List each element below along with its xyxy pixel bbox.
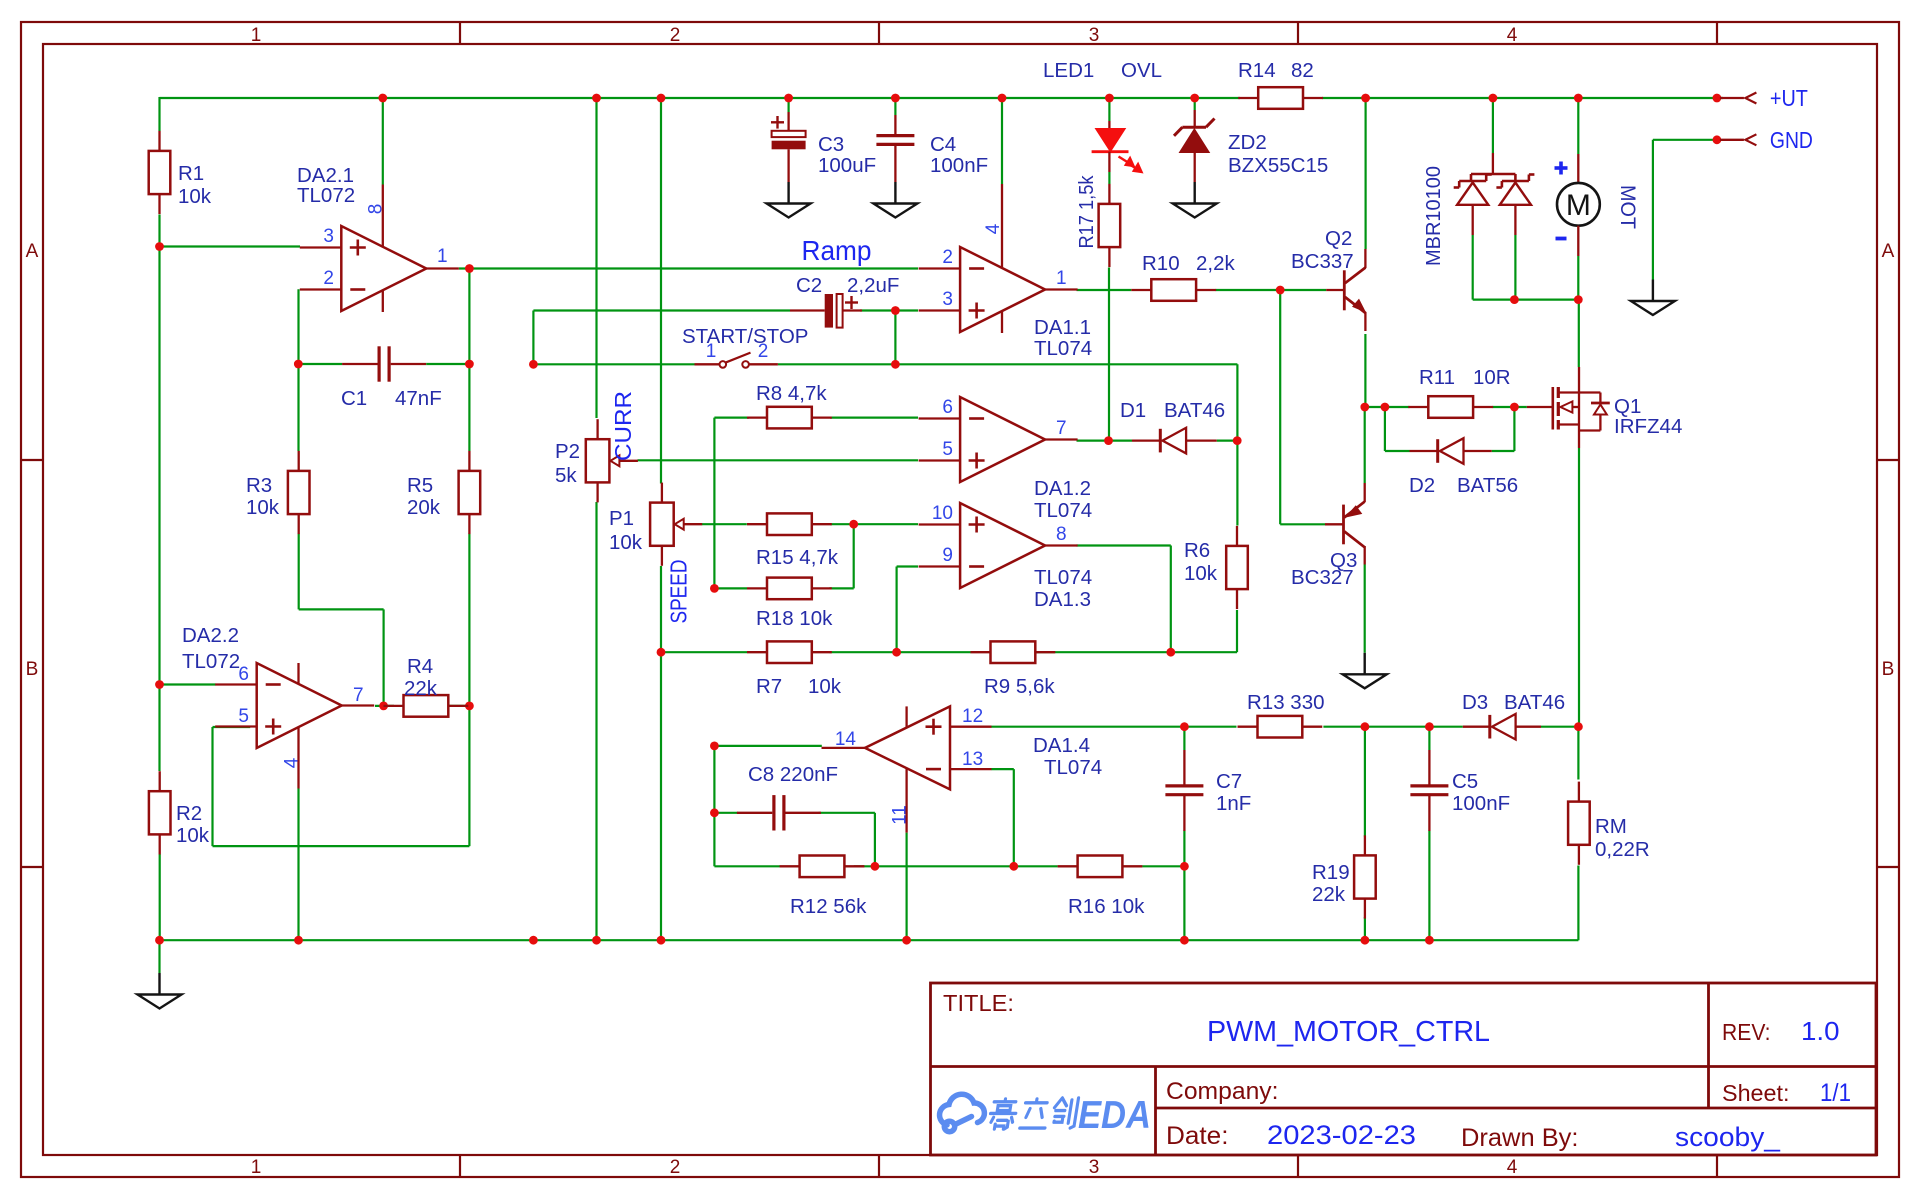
diode D2	[1410, 450, 1438, 452]
svg-text:R5: R5	[407, 474, 433, 497]
svg-text:SPEED: SPEED	[666, 560, 692, 624]
wire Q2 emitter to R11 node	[1364, 334, 1366, 407]
wire GND bus	[160, 939, 1430, 941]
wire DA2.1 pin2 drop to C1 left node	[297, 289, 299, 364]
svg-text:2,2k: 2,2k	[1196, 252, 1235, 275]
ground for main GND bus	[158, 973, 160, 995]
ground for ZD2	[1193, 182, 1195, 204]
junction dot C8/R12 right	[871, 862, 880, 871]
svg-text:DA1.4: DA1.4	[1033, 734, 1090, 757]
dual schottky MBR10100	[1492, 153, 1494, 174]
svg-text:4: 4	[282, 757, 303, 768]
svg-text:100uF: 100uF	[818, 154, 876, 177]
resistor R11	[1428, 396, 1473, 418]
wire R8 to DA1.2 pin6	[830, 417, 918, 419]
svg-text:BC337: BC337	[1291, 250, 1354, 273]
svg-text:C1: C1	[341, 387, 367, 410]
svg-text:10k: 10k	[246, 496, 280, 519]
svg-text:3: 3	[1089, 1157, 1100, 1178]
svg-text:ZD2: ZD2	[1228, 131, 1267, 154]
svg-text:R11: R11	[1419, 366, 1455, 389]
junction dot switch to pin3 column	[891, 360, 900, 369]
wire DA2.2 pin6 node to R2 top	[158, 685, 160, 772]
title block	[931, 983, 1877, 1155]
wire Q3 emitter up to R11 node	[1364, 407, 1366, 483]
wire R11 right to Q1 gate node	[1493, 406, 1527, 408]
wire motor node down to Q1 drain	[1578, 300, 1580, 367]
junction dot C5 node	[1425, 722, 1434, 731]
svg-text:MBR10100: MBR10100	[1422, 166, 1445, 266]
wire DA1.4 pin11 to GND bus	[905, 833, 907, 941]
svg-text:1: 1	[1056, 268, 1067, 289]
resistor RM	[1568, 802, 1590, 845]
resistor R18	[767, 578, 812, 600]
wire R7 to R9 segment	[829, 651, 896, 653]
svg-text:2: 2	[323, 268, 334, 289]
svg-text:DA1.2: DA1.2	[1034, 477, 1091, 500]
jlc eda logo cloud	[940, 1094, 985, 1131]
wire RM node drop	[1577, 727, 1579, 780]
capacitor C5	[1428, 750, 1430, 786]
junction dot motor bottom node	[1574, 295, 1583, 304]
svg-text:5k: 5k	[555, 464, 577, 487]
svg-text:C5: C5	[1452, 770, 1478, 793]
port GND	[1713, 135, 1722, 144]
wire P1 column from bus	[660, 98, 662, 484]
junction dot R7 row at P1 column	[657, 648, 666, 657]
svg-text:D2: D2	[1409, 474, 1435, 497]
svg-text:A: A	[26, 241, 39, 262]
resistor R14	[1258, 87, 1303, 109]
svg-text:TL074: TL074	[1034, 566, 1092, 589]
junction dot D1 right node	[1233, 436, 1242, 445]
svg-text:Sheet:: Sheet:	[1722, 1080, 1790, 1106]
wire RM bottom corner to GND bus	[1577, 866, 1579, 941]
svg-text:13: 13	[962, 749, 983, 770]
svg-text:10k: 10k	[1184, 562, 1218, 585]
svg-text:TL074: TL074	[1034, 337, 1092, 360]
svg-text:D3: D3	[1462, 691, 1488, 714]
resistor R6	[1226, 546, 1248, 589]
transistor Q3	[1325, 523, 1343, 525]
svg-text:1nF: 1nF	[1216, 792, 1251, 815]
capacitor C8	[772, 795, 775, 830]
svg-text:Q2: Q2	[1325, 227, 1352, 250]
resistor R7	[767, 641, 812, 663]
wire C2 right to DA1.1 pin3 node	[860, 309, 918, 311]
svg-text:R2: R2	[176, 802, 202, 825]
svg-text:4: 4	[1507, 25, 1518, 46]
wire C2 row left segment	[533, 309, 790, 311]
svg-text:R19: R19	[1312, 861, 1350, 884]
junction dot D2 left branch	[1381, 403, 1390, 412]
wire DA2.1 pin8 power drop	[382, 98, 384, 185]
ground for Q3	[1363, 653, 1365, 675]
junction dot out8 at R9 row	[1166, 648, 1175, 657]
junction dot R10 to Q2/Q3 base	[1276, 286, 1285, 295]
wire ramp node corner down to D1 right node	[1236, 364, 1238, 440]
wire ZD2 top lead from bus	[1194, 98, 1196, 110]
svg-text:10k: 10k	[176, 824, 210, 847]
wire D1 cathode to ramp node	[1217, 440, 1238, 442]
resistor R8	[767, 407, 812, 429]
op-amp DA1.1	[960, 247, 1045, 332]
svg-text:1.0: 1.0	[1801, 1016, 1840, 1046]
wire motor top lead from bus	[1577, 98, 1579, 154]
wire R7 row left from P1 column	[661, 651, 747, 653]
capacitor C7	[1183, 750, 1185, 786]
wire DA1.2 out to D1 node	[1077, 440, 1109, 442]
zener diode ZD2	[1194, 110, 1196, 127]
svg-text:3: 3	[942, 289, 953, 310]
wire DA2.2 pin6 input	[160, 683, 216, 685]
svg-text:2: 2	[758, 341, 769, 362]
svg-text:Drawn By:: Drawn By:	[1461, 1124, 1579, 1152]
svg-text:C8 220nF: C8 220nF	[748, 763, 838, 786]
svg-text:3: 3	[323, 226, 334, 247]
svg-text:10R: 10R	[1473, 366, 1511, 389]
wire D2 left branch drop	[1384, 407, 1386, 451]
junction dots GND bus	[155, 936, 164, 945]
junction dot DA2.2 pin6 node	[155, 680, 164, 689]
svg-text:1: 1	[706, 341, 717, 362]
wire R17 bottom down to D1 node	[1108, 268, 1110, 441]
ground for GND port	[1652, 280, 1654, 302]
motor MOT	[1577, 154, 1579, 183]
wire LED1 to R17	[1108, 172, 1110, 184]
svg-text:C4: C4	[930, 133, 956, 156]
wire C1 right node down to R5	[468, 364, 470, 451]
svg-text:C3: C3	[818, 133, 844, 156]
wire MBR10100 top lead from bus	[1492, 98, 1494, 153]
svg-text:R3: R3	[246, 474, 272, 497]
svg-text:2,2uF: 2,2uF	[847, 274, 899, 297]
svg-text:scooby_: scooby_	[1675, 1122, 1781, 1152]
junction dot pin12/C7 node	[1180, 722, 1189, 731]
resistor R5	[459, 471, 481, 514]
junction dot C2 right / DA1.1 pin3	[891, 306, 900, 315]
svg-text:10k: 10k	[808, 675, 842, 698]
wire R18 right corner up to pin10 node	[829, 587, 853, 589]
junction dots +UT bus	[378, 94, 387, 103]
junction dot R16/C7 node	[1180, 862, 1189, 871]
svg-text:7: 7	[1056, 418, 1067, 439]
diode D3	[1463, 726, 1490, 728]
wire DA1.4 pin13 loop	[991, 768, 1014, 770]
wire pin13 node to R16	[1014, 865, 1058, 867]
svg-text:2: 2	[942, 247, 953, 268]
wire DA2.2 pin4 to GND bus	[297, 789, 299, 941]
wire C5 node to D3	[1429, 726, 1462, 728]
wire P2 column from bus	[595, 98, 597, 418]
svg-text:8: 8	[365, 204, 386, 215]
svg-text:20k: 20k	[407, 496, 441, 519]
wire C1 right node lead	[426, 363, 469, 365]
svg-text:BAT46: BAT46	[1504, 691, 1565, 714]
junction dot R15/R18 to pin10	[849, 520, 858, 529]
wire R11 node to D2 branch node	[1365, 406, 1385, 408]
resistor R3	[288, 471, 310, 514]
junction dot D3/RM node	[1574, 722, 1583, 731]
wire DA1.1 pin4 power drop	[1001, 98, 1003, 184]
capacitor C3	[787, 112, 789, 131]
svg-text:TITLE:: TITLE:	[943, 990, 1014, 1016]
svg-text:R12 56k: R12 56k	[790, 895, 867, 918]
mosfet Q1	[1527, 406, 1552, 408]
resistor R19	[1354, 855, 1376, 898]
svg-text:R10: R10	[1142, 252, 1180, 275]
junction dot Q2 emitter R11 node	[1360, 403, 1369, 412]
potentiometer P2	[586, 439, 610, 482]
wire DA1.1 pin3 node drop to switch row	[894, 311, 896, 365]
svg-text:100nF: 100nF	[930, 154, 988, 177]
svg-text:R15 4,7k: R15 4,7k	[756, 546, 839, 569]
wire R5 bottom to R4 right node	[468, 534, 470, 706]
wire R1 bottom to pin3 node	[158, 215, 160, 247]
wire DA1.3 pin9 loop down to R9 row	[897, 565, 918, 567]
wire R3 bottom to DA2.2 output node	[298, 534, 300, 610]
wire Q2 collector from bus	[1364, 98, 1366, 249]
svg-text:R9 5,6k: R9 5,6k	[984, 675, 1055, 698]
svg-text:DA1.3: DA1.3	[1034, 588, 1091, 611]
wire R13 to R19 node	[1323, 726, 1365, 728]
wire Q2/Q3 base column	[1279, 290, 1281, 524]
svg-text:BAT56: BAT56	[1457, 474, 1518, 497]
svg-text:10k: 10k	[178, 185, 212, 208]
svg-text:100nF: 100nF	[1452, 792, 1510, 815]
svg-text:IRFZ44: IRFZ44	[1614, 415, 1682, 438]
svg-text:RM: RM	[1595, 815, 1627, 838]
op-amp DA2.2	[257, 663, 342, 748]
resistor R17	[1099, 204, 1121, 247]
resistor R15	[767, 513, 812, 535]
junction dot DA2.1 output	[465, 264, 474, 273]
junction dot R8 feedback corner	[710, 584, 719, 593]
svg-text:Ramp: Ramp	[802, 235, 872, 266]
wire R19 bottom to GND bus	[1364, 917, 1366, 940]
op-amp DA1.2	[960, 397, 1045, 482]
op-amp DA1.4	[865, 706, 950, 789]
wire C7 bottom lead	[1183, 831, 1185, 867]
svg-text:R1: R1	[178, 162, 204, 185]
wire R4 right node	[448, 705, 470, 707]
wire R9 leads	[897, 651, 971, 653]
capacitor C2	[825, 294, 833, 328]
wire +UT bus	[160, 97, 1241, 99]
wire C8 left lead	[714, 812, 737, 814]
resistor R2	[149, 791, 171, 834]
svg-text:C7: C7	[1216, 770, 1242, 793]
potentiometer P1	[650, 503, 674, 546]
diode D1	[1132, 439, 1160, 441]
junction dot pin13 node	[1009, 862, 1018, 871]
svg-text:7: 7	[353, 685, 364, 706]
op-amp DA1.3	[960, 503, 1045, 588]
svg-text:P1: P1	[609, 507, 634, 530]
junction dot D1 left node	[1104, 436, 1113, 445]
svg-text:A: A	[1882, 241, 1895, 262]
wire P2 wiper to DA1.2 pin5	[638, 459, 919, 461]
junction dot MBR bottom row	[1510, 295, 1519, 304]
wire R6 bottom corner to R9 row	[1236, 610, 1238, 652]
LED LED1	[1108, 121, 1110, 129]
svg-text:BZX55C15: BZX55C15	[1228, 154, 1328, 177]
junction dot R4 right	[465, 702, 474, 711]
wire C1 left node leads	[298, 363, 342, 365]
svg-text:14: 14	[835, 729, 857, 750]
svg-text:REV:: REV:	[1722, 1019, 1771, 1045]
wire R16 to C7 node	[1142, 865, 1184, 867]
svg-text:22k: 22k	[1312, 883, 1346, 906]
wire feedback column C8 node to R12 row	[713, 813, 715, 867]
svg-text:Company:: Company:	[1166, 1078, 1279, 1105]
svg-text:R7: R7	[756, 675, 782, 698]
wire P2 bottom to GND bus	[595, 502, 597, 940]
svg-text:C2: C2	[796, 274, 822, 297]
junction dot DA2.2 output	[379, 702, 388, 711]
resistor R4	[404, 695, 449, 717]
wire R11 left lead	[1385, 406, 1410, 408]
wire C1 left node down to R3	[297, 364, 299, 451]
svg-text:TL072: TL072	[297, 184, 355, 207]
svg-text:P2: P2	[555, 440, 580, 463]
svg-text:4: 4	[983, 223, 1004, 234]
capacitor C4	[894, 115, 896, 136]
svg-text:LED1: LED1	[1043, 59, 1094, 82]
svg-text:5: 5	[942, 439, 953, 460]
wire DA1.4 pin12 row	[991, 726, 1236, 728]
wire C5 drop	[1428, 727, 1430, 750]
wire D3 cathode to RM node	[1541, 726, 1578, 728]
svg-text:Date:: Date:	[1166, 1122, 1229, 1150]
svg-text:R8 4,7k: R8 4,7k	[756, 382, 827, 405]
wire motor bottom row	[1514, 299, 1578, 301]
svg-text:TL074: TL074	[1044, 756, 1102, 779]
wire DA2.1 pin3 input	[160, 245, 301, 247]
wire C3 top lead from bus	[787, 98, 789, 112]
svg-text:8: 8	[1056, 524, 1067, 545]
op-amp DA2.1	[341, 226, 426, 311]
svg-text:EDA: EDA	[1078, 1094, 1151, 1137]
wire MBR left diode bottom	[1472, 235, 1474, 300]
resistor R13	[1258, 716, 1303, 738]
svg-text:3: 3	[1089, 25, 1100, 46]
wire DA2.2 pin5 feedback loop	[213, 726, 251, 728]
svg-text:10: 10	[932, 503, 953, 524]
resistor R10	[1151, 279, 1196, 301]
transistor Q2	[1326, 289, 1343, 291]
wire ramp node down to R6	[1236, 441, 1238, 526]
wire R2 bottom to GND bus	[159, 854, 161, 940]
svg-text:DA1.1: DA1.1	[1034, 316, 1091, 339]
wire C7 node down to GND bus	[1183, 866, 1185, 940]
junction dot C8 left	[710, 808, 719, 817]
wire Q1 source down to D3 node	[1578, 448, 1580, 727]
svg-text:R6: R6	[1184, 539, 1210, 562]
svg-text:START/STOP: START/STOP	[682, 325, 808, 348]
start/stop switch	[695, 363, 720, 365]
wire LED1 top lead from bus	[1108, 98, 1110, 121]
wire R18 left from feedback column	[714, 587, 747, 589]
svg-text:DA2.2: DA2.2	[182, 624, 239, 647]
svg-text:TL074: TL074	[1034, 499, 1092, 522]
wire P1 bottom to GND bus via R7 node	[660, 566, 662, 940]
wire DA2.2 output node to R4	[375, 705, 394, 707]
svg-text:M: M	[1566, 189, 1591, 222]
jlc eda logo text	[988, 1098, 1078, 1129]
wire C8 right corner down to R12 node	[819, 812, 875, 814]
wire P1 wiper to R15	[702, 523, 747, 525]
svg-text:2: 2	[670, 25, 681, 46]
svg-text:4: 4	[1507, 1157, 1518, 1178]
svg-text:2023-02-23: 2023-02-23	[1267, 1120, 1416, 1150]
wire START/STOP row left	[533, 363, 694, 365]
wire R15 to DA1.3 pin10 node	[830, 523, 918, 525]
svg-text:R13 330: R13 330	[1247, 691, 1325, 714]
svg-text:9: 9	[942, 545, 953, 566]
resistor R9	[991, 641, 1036, 663]
svg-text:MOT: MOT	[1616, 185, 1639, 229]
resistor R1	[149, 151, 171, 194]
svg-text:47nF: 47nF	[395, 387, 442, 410]
wire R19 node to C5 node	[1365, 726, 1430, 728]
svg-text:R17 1,5k: R17 1,5k	[1075, 175, 1098, 249]
wire GND bus to ground symbol stem	[158, 940, 160, 973]
ground for C4	[894, 182, 896, 204]
svg-text:BC327: BC327	[1291, 566, 1354, 589]
junction dot DA2.1 pin3 node	[155, 242, 164, 251]
svg-text:CURR: CURR	[610, 391, 636, 461]
svg-text:PWM_MOTOR_CTRL: PWM_MOTOR_CTRL	[1207, 1016, 1490, 1048]
wire +UT left drop to R1/R2 column	[158, 97, 160, 131]
svg-text:1: 1	[251, 25, 262, 46]
wire R12 right to pin13 node	[854, 865, 1014, 867]
wire C2 left corner from switch node	[532, 311, 534, 365]
junction dot pin9 at R9 row	[892, 648, 901, 657]
svg-text:12: 12	[962, 706, 983, 727]
resistor R16	[1078, 856, 1123, 878]
wire motor bottom lead	[1577, 256, 1579, 300]
wire D2 right branch	[1492, 450, 1515, 452]
wire DA2.1 output down to C1 right node	[468, 269, 470, 365]
svg-text:R14: R14	[1238, 59, 1276, 82]
svg-text:R18 10k: R18 10k	[756, 607, 833, 630]
wire START/STOP row right	[778, 363, 1238, 365]
wire DA2.1 output to DA1.1 pin2	[459, 267, 918, 269]
junction dot R13/R19 node	[1361, 722, 1370, 731]
wire R10 output row	[1077, 289, 1132, 291]
junction dot DA1.4 out	[710, 742, 719, 751]
svg-text:1: 1	[251, 1157, 262, 1178]
svg-text:R16 10k: R16 10k	[1068, 895, 1145, 918]
wire pin3 node down to DA2.2 pin6 node	[158, 247, 160, 685]
wire feedback column pin14 to C8 node	[713, 746, 715, 813]
svg-text:5: 5	[238, 706, 249, 727]
svg-text:D1: D1	[1120, 399, 1146, 422]
wire D1 anode lead	[1109, 440, 1133, 442]
svg-text:0,22R: 0,22R	[1595, 838, 1650, 861]
junction dot C1 left	[294, 360, 303, 369]
port +UT	[1713, 94, 1722, 103]
wire C5 bottom to GND bus	[1428, 831, 1430, 941]
junction dot R11 right node	[1510, 403, 1519, 412]
wire MBR right diode bottom	[1514, 235, 1516, 300]
junction dot C1 right	[465, 360, 474, 369]
wire C4 top lead from bus	[894, 98, 896, 115]
svg-text:6: 6	[942, 397, 953, 418]
wire Q3 collector down to ground	[1364, 565, 1366, 653]
junction dot C2 switch node	[529, 360, 538, 369]
